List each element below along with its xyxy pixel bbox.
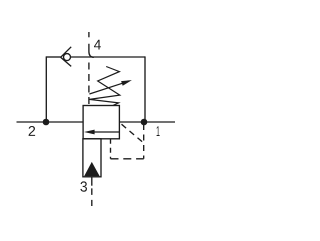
wire: top pilot horizontal line right segment bbox=[71, 56, 145, 58]
adjustment arrow through spring bbox=[89, 80, 131, 94]
pilot passage dashed diagonal from box corner bbox=[122, 124, 144, 142]
spring (adjustable relief spring) bbox=[89, 67, 119, 106]
label port 3 bbox=[80, 181, 87, 191]
wire: port 1 horizontal line bbox=[119, 121, 175, 123]
wire: left vertical bbox=[45, 56, 47, 122]
label port 4 bbox=[94, 40, 101, 50]
wire: port 4 pilot dashed vertical line below top line bbox=[88, 63, 90, 106]
wire: right vertical bbox=[144, 56, 146, 122]
wire: port 4 pilot elbow dash curving into top line bbox=[89, 44, 94, 58]
label port 1 bbox=[157, 126, 160, 136]
junction node port 1 bbox=[141, 119, 148, 126]
wire: port 2 horizontal line bbox=[17, 121, 84, 123]
pilot passage dashed bottom horizontal bbox=[111, 158, 144, 160]
pilot passage dashed right vertical bbox=[143, 124, 145, 159]
port 3 stem solid bbox=[91, 177, 93, 186]
pilot passage dashed left vertical bbox=[110, 139, 112, 159]
wire: top pilot horizontal line left segment bbox=[46, 56, 61, 58]
wire: port 4 pilot dashed vertical line, upper dash bbox=[88, 32, 90, 37]
flow path arrow inside box bbox=[84, 130, 119, 135]
label port 2 bbox=[29, 126, 35, 136]
valve envelope main box bbox=[83, 106, 119, 139]
lower box (port 3 chamber) bbox=[83, 139, 101, 177]
check valve CV1 bbox=[61, 47, 72, 67]
port 3 dashed drain line bbox=[91, 188, 93, 206]
junction node port 2 bbox=[43, 119, 50, 126]
port 3 flow triangle bbox=[84, 162, 100, 176]
